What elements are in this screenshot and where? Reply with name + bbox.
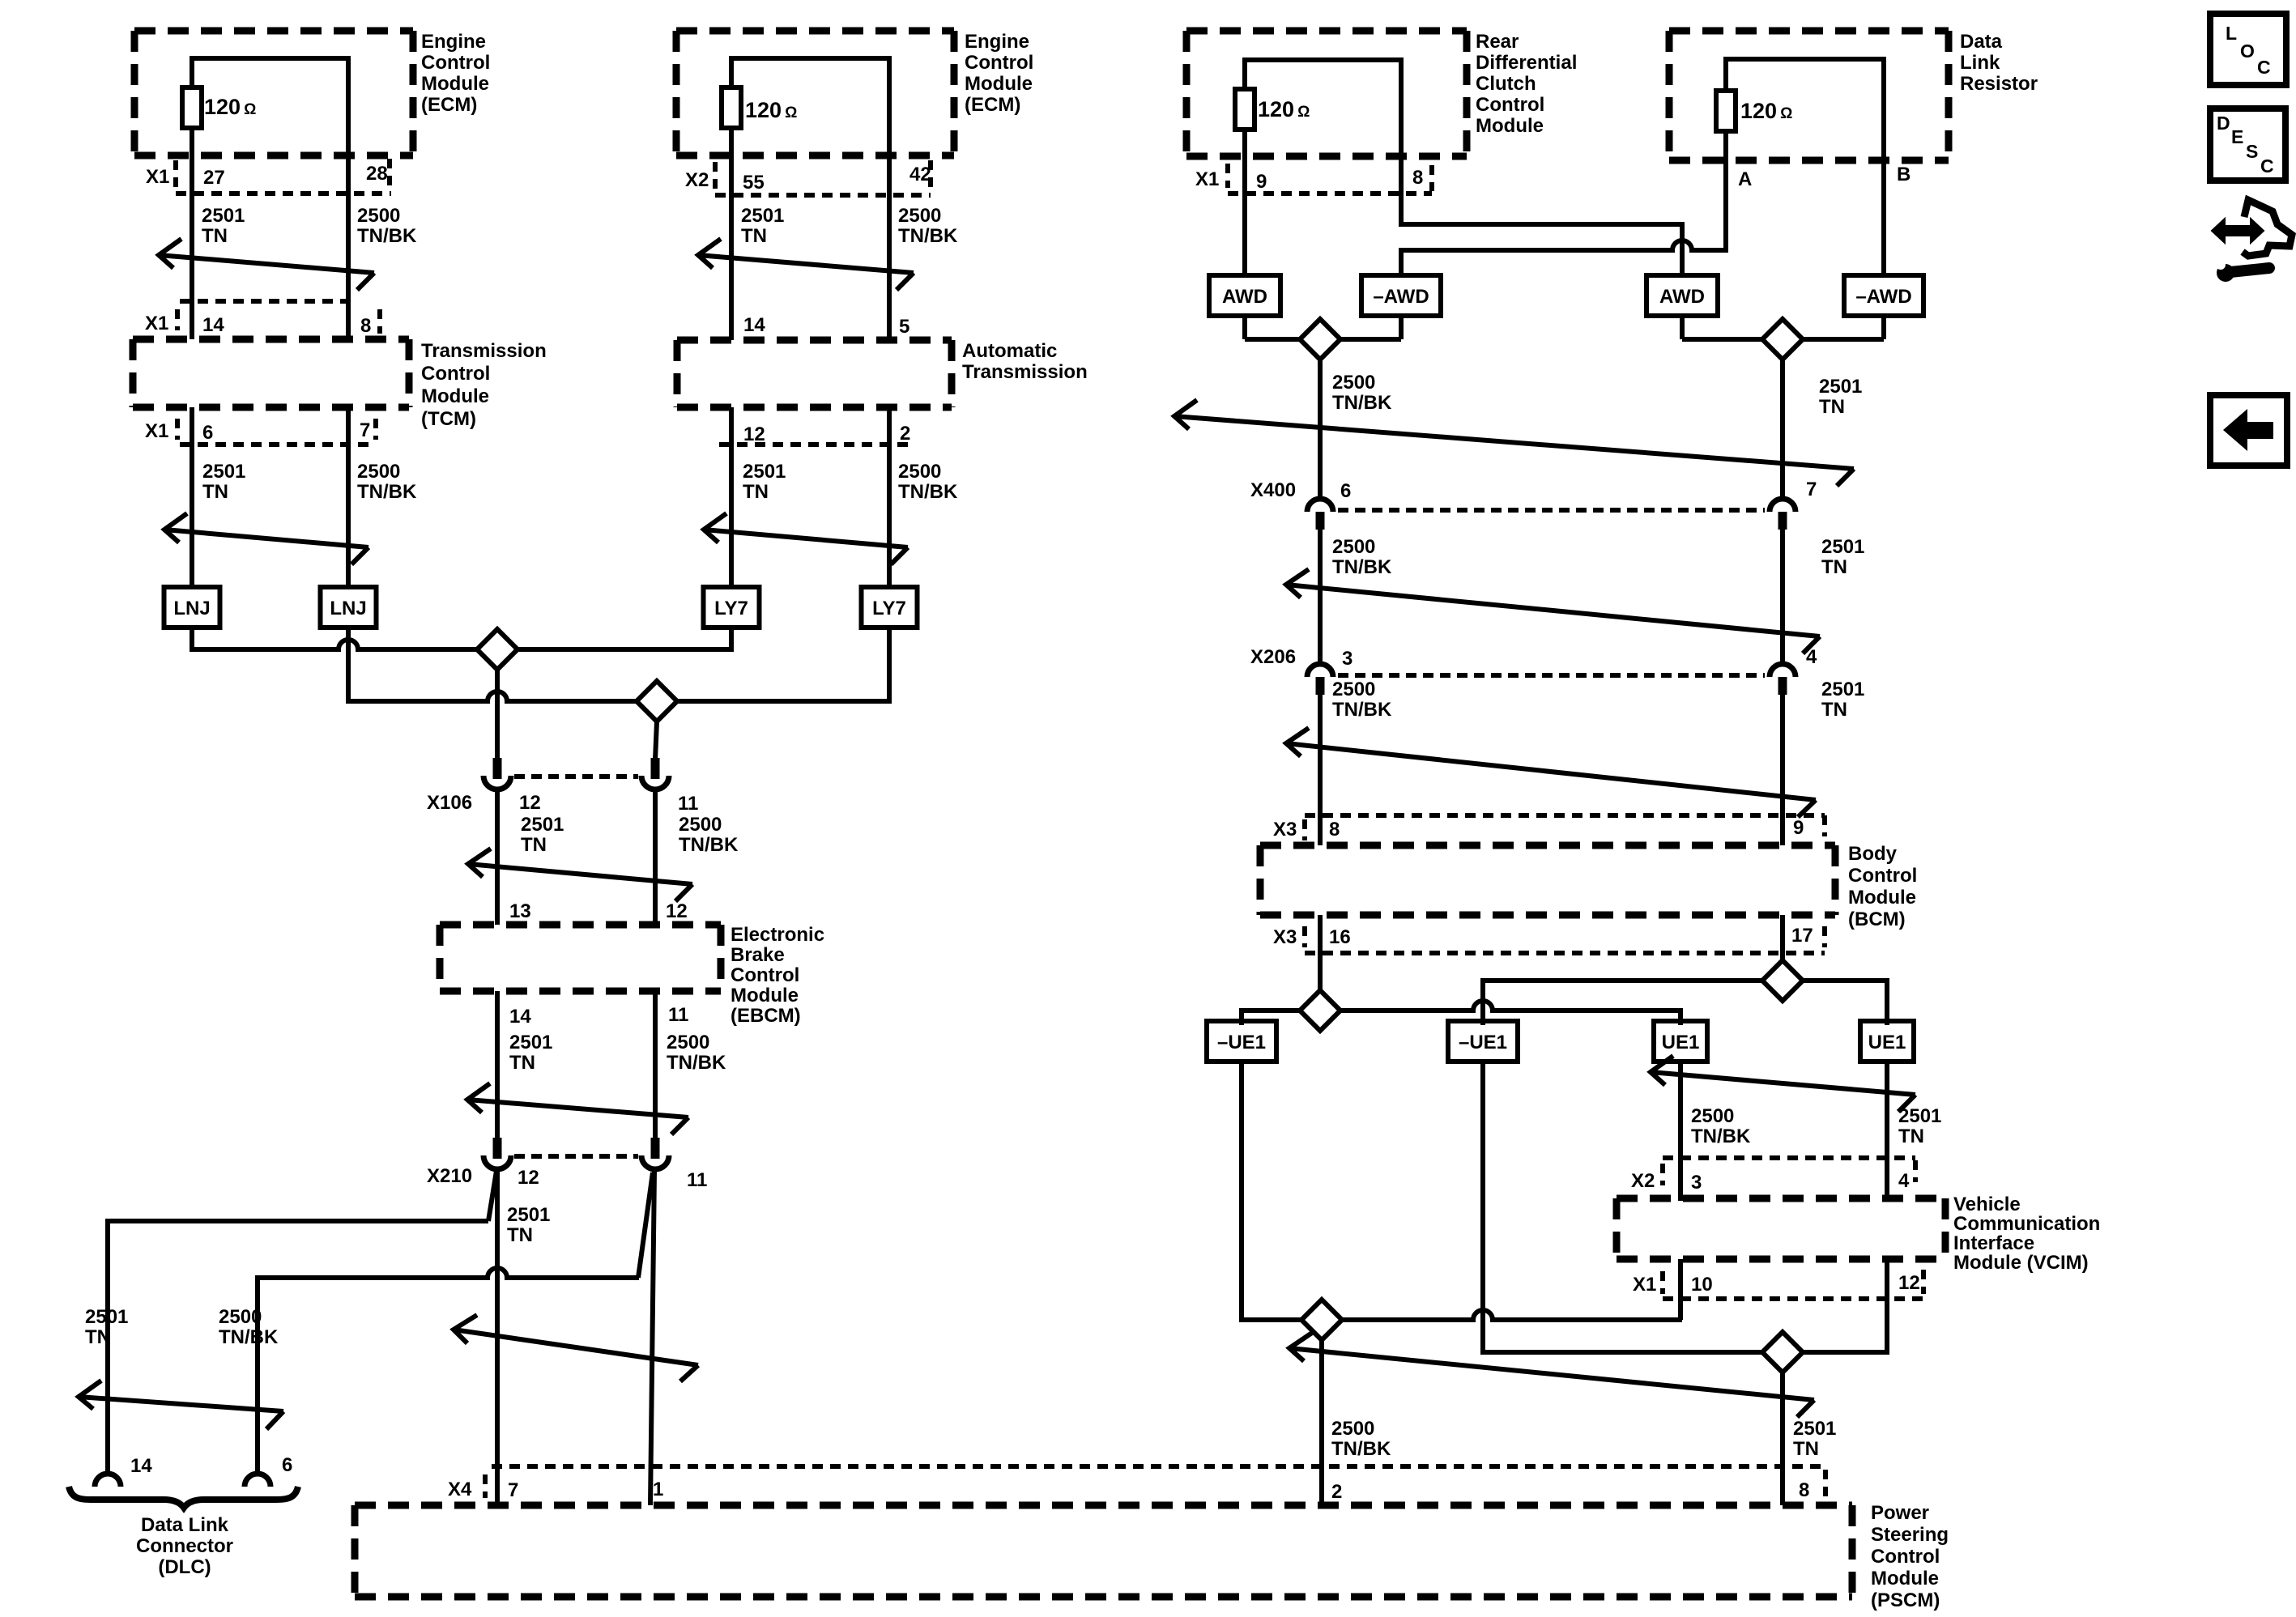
wire: RDCCM internal top bus (1245, 57, 1401, 62)
wire label 2500 TN/BK (DLC-6) (219, 1306, 279, 1348)
svg-text:(EBCM): (EBCM) (731, 1005, 801, 1027)
svg-text:–UE1: –UE1 (1459, 1032, 1507, 1053)
label: Power Steering Control Module (PSCM) (1871, 1502, 1949, 1611)
wire 2500 TN/BK to DLC pin 6 (horizontal) with hop (258, 1268, 639, 1278)
wire 2500 TN/BK: X106 to EBCM pin 12 (653, 791, 658, 925)
value label 120 ohm (ECM2) (745, 98, 797, 122)
wire 2500 TN/BK: X400 to X206 pin 3 (1318, 530, 1323, 666)
module box: Engine Control Module (ECM) middle (676, 31, 954, 155)
wire: VCIM pin 10 drop and jog to splice S8 line (1680, 1259, 1682, 1320)
icon: LOC box (2210, 14, 2286, 85)
module box: Electronic Brake Control Module (EBCM) (440, 925, 721, 991)
wire 2500 TN/BK: EBCM pin 11 drop (653, 991, 658, 1139)
wire label 2500 TN/BK (EBCM pin 11) (667, 1032, 726, 1074)
svg-text:14: 14 (743, 314, 765, 336)
splice S4 (right AWD pair) (1762, 319, 1803, 360)
wire label 2500 TN/BK (TCM pin 7) (357, 461, 417, 503)
svg-text:C: C (2257, 57, 2271, 78)
wire label 2501 TN (below X210-12) (507, 1204, 550, 1246)
svg-text:14: 14 (130, 1455, 152, 1477)
svg-text:TN: TN (507, 1224, 533, 1246)
svg-text:X206: X206 (1250, 646, 1296, 668)
svg-text:Module: Module (1848, 887, 1916, 908)
svg-text:12: 12 (743, 423, 765, 445)
svg-text:X4: X4 (448, 1479, 472, 1500)
branch wire to DLC line 1 (488, 1171, 496, 1221)
svg-text:Control: Control (421, 363, 490, 385)
svg-text:(TCM): (TCM) (421, 408, 476, 430)
connector X206 mate line (1338, 673, 1765, 678)
svg-text:8: 8 (1799, 1479, 1809, 1501)
svg-text:16: 16 (1329, 926, 1351, 948)
label: Rear Differential Clutch Control Module (1476, 31, 1577, 137)
wire label 2501 TN (below S4) (1819, 376, 1862, 418)
svg-text:2: 2 (1331, 1481, 1342, 1503)
wire: AWD pair join right (1682, 316, 1884, 339)
wire: CAN- bus line with hop over splice drop (348, 691, 889, 701)
svg-text:(ECM): (ECM) (421, 94, 477, 116)
wire label 2501 TN (PSCM pin 8) (1793, 1418, 1836, 1460)
svg-text:Power: Power (1871, 1502, 1929, 1524)
wire: BCM pin 16 drop to splice S6 (1318, 915, 1323, 1011)
wire 2501 TN: X400 to X206 pin 4 (1780, 530, 1785, 666)
svg-text:C: C (2260, 155, 2274, 177)
svg-text:LNJ: LNJ (173, 598, 210, 619)
wire label 2501 TN (AT pin 12) (743, 461, 786, 503)
wire 2500 TN/BK: AT pin 2 drop (887, 407, 892, 588)
svg-text:TN: TN (1821, 699, 1847, 721)
svg-text:TN: TN (85, 1326, 111, 1348)
svg-text:TN/BK: TN/BK (667, 1052, 726, 1074)
svg-text:2500: 2500 (667, 1032, 709, 1053)
wire label 2500 TN/BK (AT pin 2) (898, 461, 958, 503)
connector row X2 pins 55/42 (ECM2) (685, 160, 931, 195)
wire label 2501 TN (X106-12) (521, 814, 564, 856)
label: Engine Control Module (ECM) middle (965, 31, 1033, 116)
svg-text:7: 7 (1806, 479, 1817, 500)
svg-text:TN/BK: TN/BK (1331, 1438, 1391, 1460)
wire 2501 TN: ECM1 pin 27 drop (190, 56, 194, 339)
wire label 2500 TN/BK (X206-3) (1332, 679, 1392, 721)
svg-text:2: 2 (900, 423, 910, 445)
in-line connector X210 pin 12 (male) (493, 1138, 502, 1159)
svg-text:7: 7 (360, 419, 370, 441)
wire label 2501 TN (ECM2 pin 55) (741, 205, 784, 247)
svg-text:14: 14 (202, 314, 224, 336)
in-line connector X106 pin 12 (female) (483, 776, 511, 789)
svg-text:Vehicle: Vehicle (1953, 1194, 2021, 1215)
svg-text:X3: X3 (1273, 819, 1297, 840)
label: Engine Control Module (ECM) left (421, 31, 490, 116)
wire: UE1 #1 drop to VCIM X2 pin 3 (1678, 1060, 1683, 1201)
svg-text:Transmission: Transmission (962, 361, 1088, 383)
off-page arrow (DLC pair) (79, 1381, 283, 1429)
in-line connector X400 pin 7 (male) (1778, 512, 1787, 530)
off-page arrow (X400 to X206) (1286, 569, 1820, 653)
svg-text:X1: X1 (145, 313, 168, 334)
wire 2500 TN/BK: TCM pin 7 drop (346, 407, 351, 588)
label: Electronic Brake Control Module (EBCM) (731, 924, 824, 1027)
off-page arrow (X106 to EBCM) (468, 849, 692, 901)
label: Vehicle Communication Interface Module (VCIM) (1953, 1194, 2100, 1274)
wire label 2501 TN (X400-7) (1821, 536, 1864, 578)
svg-text:–AWD: –AWD (1855, 286, 1911, 308)
labels X400 6 / 7 (1250, 479, 1817, 502)
connector row X3 pins 16/17 (BCM bottom) (1273, 925, 1825, 953)
off-page arrow (to PSCM) (1289, 1333, 1814, 1417)
wire 2501 TN: splice S9 drop to PSCM pin 8 (1780, 1372, 1785, 1505)
svg-text:28: 28 (366, 163, 388, 185)
svg-text:S: S (2246, 141, 2258, 162)
option box UE1 #1 (1654, 1021, 1707, 1062)
svg-text:10: 10 (1691, 1274, 1713, 1296)
connector row X4 pins 7/1/2/8 (PSCM) (448, 1466, 1825, 1503)
svg-text:13: 13 (509, 900, 531, 922)
wire: RDCCM pin 8 drop (1399, 57, 1404, 227)
wire: LY7 left drop to CAN+ bus (729, 628, 734, 652)
svg-text:Automatic: Automatic (962, 340, 1057, 362)
svg-text:2501: 2501 (1793, 1418, 1836, 1440)
svg-text:11: 11 (687, 1169, 707, 1191)
wire: LNJ left drop to CAN+ bus (190, 628, 194, 652)
wire: RDCCM pin 8 jog to AWD column (1401, 222, 1682, 278)
wire 2501 TN: X206 to BCM pin 9 (1780, 695, 1785, 845)
wire label 2500 TN/BK (ECM2 pin 42) (898, 205, 958, 247)
svg-text:(PSCM): (PSCM) (1871, 1589, 1940, 1611)
off-page arrow (to X400) (1174, 400, 1854, 486)
wire label 2500 TN/BK (X400-6) (1332, 536, 1392, 578)
svg-text:2500: 2500 (679, 814, 722, 836)
svg-text:2501: 2501 (1821, 536, 1864, 558)
svg-text:8: 8 (1412, 167, 1423, 189)
svg-text:Body: Body (1848, 843, 1898, 865)
svg-text:L: L (2226, 23, 2237, 44)
value label 120 ohm (RDCCM) (1258, 97, 1310, 121)
svg-text:2501: 2501 (202, 205, 245, 227)
wire: DLR pin A jog to -AWD column with hop (1401, 240, 1726, 278)
svg-text:X210: X210 (427, 1165, 472, 1187)
svg-text:9: 9 (1256, 171, 1267, 193)
wire: LY7 right drop to CAN- bus (887, 628, 892, 704)
svg-text:Brake: Brake (731, 944, 785, 966)
svg-text:Control: Control (421, 52, 490, 74)
label: Automatic Transmission (962, 340, 1088, 383)
svg-text:LY7: LY7 (714, 598, 748, 619)
svg-text:17: 17 (1791, 925, 1813, 947)
svg-text:6: 6 (1340, 480, 1351, 502)
svg-text:2501: 2501 (507, 1204, 550, 1226)
svg-text:Module: Module (731, 985, 799, 1006)
icon: DESC box (2210, 109, 2285, 181)
option box LNJ left (164, 587, 220, 628)
labels X210 12 / 11 (427, 1165, 707, 1191)
in-line connector X106 pin 11 (female) (641, 776, 669, 789)
wire 2500 TN/BK: X206 to BCM pin 8 (1318, 695, 1323, 845)
svg-text:TN: TN (1898, 1126, 1924, 1147)
wire: LNJ right drop to CAN- bus (346, 628, 351, 704)
svg-text:Control: Control (1476, 94, 1544, 116)
svg-text:TN: TN (521, 834, 547, 856)
module box: Rear Differential Clutch Control Module (1186, 31, 1467, 156)
wire: ECM1 internal top bus (192, 56, 348, 61)
wire 2500 TN/BK: splice S8 drop to PSCM pin 2 (1319, 1340, 1324, 1505)
resistor 120 ohm (ECM1) (182, 87, 202, 128)
wire: -UE1 #1 drop to splice S8 line (1239, 1060, 1244, 1322)
svg-text:3: 3 (1342, 648, 1352, 670)
svg-text:Resistor: Resistor (1960, 73, 2038, 95)
svg-text:TN/BK: TN/BK (219, 1326, 279, 1348)
svg-text:Module: Module (421, 73, 489, 95)
svg-text:UE1: UE1 (1662, 1032, 1700, 1053)
connector X210 mate line (514, 1154, 638, 1159)
svg-text:8: 8 (360, 315, 371, 337)
wire 2501 TN: AT pin 12 drop (729, 407, 734, 588)
svg-text:Module (VCIM): Module (VCIM) (1953, 1252, 2089, 1274)
svg-text:TN: TN (743, 481, 769, 503)
svg-text:TN/BK: TN/BK (1332, 556, 1392, 578)
wire 2501 TN: X210 down to X4 pin 7 (495, 1171, 500, 1505)
svg-text:Data: Data (1960, 31, 2003, 53)
wire: DLR pin A drop (1723, 57, 1728, 253)
svg-text:Steering: Steering (1871, 1524, 1949, 1546)
svg-text:12: 12 (1898, 1272, 1920, 1294)
svg-text:TN/BK: TN/BK (357, 225, 417, 247)
svg-text:TN: TN (509, 1052, 535, 1074)
svg-text:Data Link: Data Link (141, 1514, 229, 1536)
svg-text:3: 3 (1691, 1172, 1702, 1194)
wire: splice S5 bus to -UE1/UE1 (y=1211) (1483, 978, 1887, 1025)
svg-text:–AWD: –AWD (1373, 286, 1429, 308)
svg-text:Interface: Interface (1953, 1232, 2034, 1254)
svg-text:LNJ: LNJ (330, 598, 366, 619)
svg-text:2501: 2501 (85, 1306, 128, 1328)
wire 2501 TN: EBCM pin 14 drop (495, 991, 500, 1139)
svg-text:Clutch: Clutch (1476, 73, 1536, 95)
svg-text:Rear: Rear (1476, 31, 1519, 53)
svg-text:X1: X1 (1633, 1274, 1656, 1296)
svg-text:42: 42 (909, 164, 931, 185)
svg-text:Electronic: Electronic (731, 924, 824, 946)
module box: Vehicle Communication Interface Module (VCIM) (1617, 1198, 1945, 1259)
wire label 2501 TN (TCM pin 6) (202, 461, 245, 503)
wire: VCIM pin 12 drop and jog to splice S9 line (1783, 1259, 1887, 1352)
off-page arrow (EBCM to X210) (467, 1083, 688, 1134)
wire: DLC pin 6 drop (255, 1275, 260, 1474)
svg-text:Module: Module (1871, 1568, 1939, 1589)
svg-text:7: 7 (508, 1479, 518, 1501)
svg-text:4: 4 (1806, 646, 1817, 668)
wire: ECM2 internal top bus (731, 56, 889, 61)
svg-text:12: 12 (518, 1167, 539, 1189)
branch wire to DLC line 2 (638, 1172, 653, 1278)
svg-text:2500: 2500 (219, 1306, 262, 1328)
off-page arrow (TCM pair to LNJ) (164, 513, 368, 564)
option box -UE1 #2 (1448, 1021, 1518, 1062)
svg-text:2500: 2500 (898, 461, 941, 483)
wire 2501 TN: X106 to EBCM pin 13 (495, 791, 500, 925)
svg-text:X1: X1 (146, 166, 169, 188)
svg-text:X1: X1 (1195, 168, 1219, 190)
wire: DLR internal top bus (1726, 57, 1884, 62)
in-line connector X210 pin 11 (male) (651, 1138, 660, 1159)
wire 2501 TN to DLC pin 14 (horizontal) (108, 1219, 488, 1223)
svg-text:TN/BK: TN/BK (679, 834, 739, 856)
svg-text:TN/BK: TN/BK (357, 481, 417, 503)
connector row X1 pins 6/7 (TCM bottom) (145, 419, 376, 445)
wire: splice S2 drop to X106 pin 11 (655, 721, 657, 760)
svg-text:TN: TN (1819, 396, 1845, 418)
splice S2 on CAN- bus (637, 681, 677, 721)
DLC pin 14 terminal (95, 1474, 121, 1487)
svg-text:TN: TN (202, 225, 228, 247)
svg-text:X2: X2 (685, 169, 709, 191)
wire label 2501 TN (UE1-4) (1898, 1105, 1941, 1147)
svg-text:X2: X2 (1631, 1170, 1655, 1192)
svg-text:6: 6 (202, 422, 213, 444)
svg-text:2500: 2500 (1332, 372, 1375, 394)
svg-text:2500: 2500 (898, 205, 941, 227)
svg-text:2500: 2500 (1332, 679, 1375, 700)
label: Data Link Resistor (1960, 31, 2038, 95)
in-line connector X206 pin 3 (male) (1316, 677, 1325, 695)
svg-text:TN: TN (202, 481, 228, 503)
svg-text:1: 1 (653, 1479, 663, 1500)
in-line connector X106 pin 11 (male) (651, 758, 660, 779)
svg-text:2500: 2500 (357, 461, 400, 483)
in-line connector X206 pin 4 (female) (1770, 664, 1795, 677)
wire 2500 TN/BK: splice S3 drop to X400 pin 6 (1318, 360, 1323, 500)
svg-text:2501: 2501 (1898, 1105, 1941, 1127)
label: Data Link Connector (DLC) (136, 1514, 233, 1578)
wire label 2500 TN/BK (PSCM pin 2) (1331, 1418, 1391, 1460)
svg-text:TN: TN (1821, 556, 1847, 578)
module box: Automatic Transmission (677, 340, 952, 407)
wire 2501 TN: splice S4 drop to X400 pin 7 (1780, 360, 1785, 500)
wire label 2500 TN/BK (below S3) (1332, 372, 1392, 414)
wire label 2501 TN (DLC-14) (85, 1306, 128, 1348)
icon: back arrow box (2210, 395, 2287, 466)
wire: splice S6 bus to -UE1/UE1 (y=1248) with hop (1242, 1001, 1680, 1025)
svg-text:TN: TN (741, 225, 767, 247)
splice S5 (1762, 960, 1803, 1001)
labels X106 12 / 11 (427, 792, 698, 815)
resistor 120 ohm (DLR) (1716, 91, 1736, 131)
svg-text:X3: X3 (1273, 926, 1297, 948)
svg-text:Control: Control (1848, 865, 1917, 887)
svg-text:Module: Module (1476, 115, 1544, 137)
module box: Power Steering Control Module (PSCM) (355, 1505, 1852, 1597)
svg-text:D: D (2217, 113, 2230, 134)
option box LY7 left (704, 587, 760, 628)
label: Body Control Module (BCM) (1848, 843, 1917, 930)
wire 2500 TN/BK: X210 down to X4 pin 1 (650, 1171, 654, 1505)
wire 2501 TN: TCM pin 6 drop (190, 407, 194, 588)
svg-text:(BCM): (BCM) (1848, 908, 1906, 930)
svg-text:5: 5 (899, 316, 909, 338)
module box: Data Link Resistor (1669, 31, 1949, 160)
svg-text:8: 8 (1329, 819, 1340, 840)
pin labels A/B (DLR) (1738, 164, 1910, 190)
svg-text:6: 6 (282, 1454, 292, 1476)
svg-text:12: 12 (519, 792, 541, 814)
option box AWD #1 (1209, 275, 1280, 316)
icon: harness repair (arrow and wrench) (2212, 200, 2292, 282)
svg-text:12: 12 (666, 900, 688, 922)
splice S6 (1300, 990, 1340, 1031)
splice S9 (1762, 1332, 1803, 1372)
svg-text:11: 11 (678, 793, 698, 815)
svg-text:A: A (1738, 168, 1752, 190)
connector row X3 pins 8/9 (BCM top) (1273, 815, 1825, 840)
svg-text:X106: X106 (427, 792, 472, 814)
label: Transmission Control Module (TCM) (421, 340, 547, 430)
svg-text:Module: Module (965, 73, 1033, 95)
svg-text:LY7: LY7 (872, 598, 906, 619)
module box: Body Control Module (BCM) (1260, 845, 1835, 915)
off-page arrow (ECM2 to AT pair) (698, 239, 914, 290)
in-line connector X206 pin 4 (male) (1778, 677, 1787, 695)
svg-text:9: 9 (1793, 817, 1804, 839)
svg-text:2501: 2501 (202, 461, 245, 483)
svg-text:27: 27 (203, 167, 225, 189)
svg-text:TN/BK: TN/BK (898, 481, 958, 503)
connector X106 mate line (514, 774, 638, 779)
option box UE1 #2 (1860, 1021, 1914, 1062)
wire label 2500 TN/BK (X106-11) (679, 814, 739, 856)
svg-text:(DLC): (DLC) (158, 1556, 211, 1578)
pin row 12/2 (AT bottom) (719, 423, 913, 445)
wire: splice S9 bus (y=1670) (1483, 1350, 1887, 1355)
off-page arrow (ECM1 to TCM pair) (159, 239, 374, 290)
wire label 2501 TN (ECM1 pin 27) (202, 205, 245, 247)
pin labels 14/11 (EBCM bottom) (509, 1004, 688, 1028)
svg-text:55: 55 (743, 172, 765, 194)
svg-text:AWD: AWD (1222, 286, 1267, 308)
svg-text:E: E (2231, 126, 2243, 147)
off-page arrow (AT pair to LY7) (704, 513, 908, 564)
svg-text:2501: 2501 (521, 814, 564, 836)
in-line connector X210 pin 11 (female) (641, 1155, 669, 1169)
wire: DLR pin B drop (1881, 57, 1886, 278)
connector row X1 pins 14/8 (TCM top) (145, 301, 380, 337)
module box: Engine Control Module (ECM) left (134, 31, 413, 155)
value label 120 ohm (ECM1) (204, 95, 256, 119)
svg-text:Module: Module (421, 385, 489, 407)
labels X206 3 / 4 (1250, 646, 1817, 670)
option box AWD #2 (1646, 275, 1718, 316)
wire: DLC pin 14 drop (105, 1219, 110, 1474)
svg-text:Differential: Differential (1476, 52, 1577, 74)
svg-text:2500: 2500 (1691, 1105, 1734, 1127)
splice S8 (1301, 1300, 1342, 1340)
svg-text:Engine: Engine (965, 31, 1029, 53)
splice S3 (left AWD pair) (1300, 319, 1340, 360)
wire label 2501 TN (X206-4) (1821, 679, 1864, 721)
svg-text:2501: 2501 (1821, 679, 1864, 700)
svg-text:Engine: Engine (421, 31, 486, 53)
in-line connector X400 pin 6 (male) (1316, 512, 1325, 530)
svg-text:Control: Control (965, 52, 1033, 74)
pin labels 14/5 (AT top) (743, 314, 909, 338)
connector row X1 pins 9/8 (RDCCM) (1195, 164, 1432, 194)
wire: BCM pin 17 drop to splice S5 (1780, 915, 1785, 981)
svg-text:TN/BK: TN/BK (898, 225, 958, 247)
svg-text:Communication: Communication (1953, 1213, 2100, 1235)
option box LY7 right (862, 587, 918, 628)
svg-text:O: O (2240, 40, 2255, 62)
resistor 120 ohm (ECM2) (722, 87, 741, 128)
wire 2501 TN: ECM2 pin 55 drop (729, 56, 734, 340)
